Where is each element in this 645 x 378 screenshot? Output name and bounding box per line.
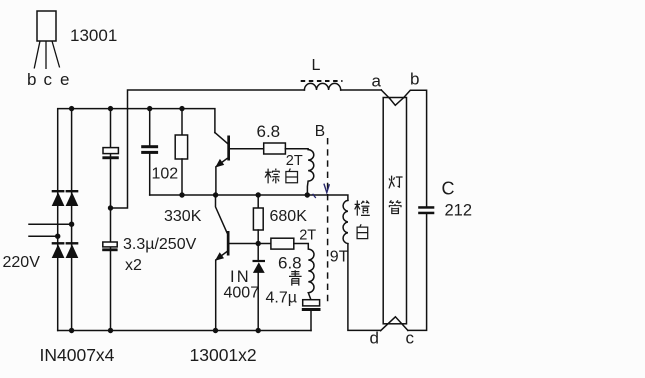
svg-text:3.3µ/250V: 3.3µ/250V [123,236,197,253]
svg-text:9T: 9T [330,248,349,265]
label guan (tube) [389,200,402,213]
lamp filament bottom [381,317,408,331]
transformer core (dashed) [327,138,329,305]
capacitor C4 212 [418,206,434,214]
resistor R1 330K [175,109,187,195]
node: AC lower [55,234,60,239]
wire: AC input line upper [29,223,72,225]
label cheng (orange) [355,200,370,215]
resistor R3 680K [253,195,263,244]
wire: half-bridge midpoint to resonant rail [111,90,305,208]
label bai (white) [286,169,298,183]
resistor R4 6.8 [271,238,294,249]
svg-text:102: 102 [152,166,179,183]
svg-text:6.8: 6.8 [257,122,281,141]
svg-text:4007: 4007 [224,285,260,302]
svg-text:13001: 13001 [70,26,117,45]
wire: right bridge leg [71,109,73,331]
wire: Q1 base lead [230,148,264,150]
svg-text:L: L [312,57,321,74]
node: 330K top [179,106,184,111]
lamp filament top [390,98,404,106]
node: cap string top [108,106,113,111]
svg-text:d: d [370,329,379,348]
capacitor C1 3.3u upper [102,148,118,160]
node: 2T winding bottom [305,192,310,197]
node: bridge bottom right [69,328,74,333]
node: Q1 emitter junction [213,192,218,197]
capacitor C3 4.7u [302,300,321,331]
svg-text:330K: 330K [164,208,202,225]
svg-text:680K: 680K [270,208,308,225]
winding T1 9T orange-white [343,200,348,243]
svg-text:13001x2: 13001x2 [190,345,257,365]
svg-text:2T: 2T [286,153,303,169]
wire: DC+ top rail [58,109,215,331]
capacitor C2 3.3u lower [102,242,117,251]
svg-text:IN4007x4: IN4007x4 [40,345,115,365]
svg-text:4.7µ: 4.7µ [266,290,297,307]
diode D1 (top-left of bridge) [52,191,65,206]
svg-text:c: c [406,329,415,348]
node: diode D5 bottom [256,328,261,333]
wire: L to lamp pin a [341,89,382,91]
svg-text:C: C [442,179,455,199]
transistor Q1 [215,133,230,195]
wire: 9T to lamp pin d [348,244,381,331]
resistor R2 6.8 [264,143,286,154]
svg-text:2T: 2T [299,228,316,244]
winding T1 2T cyan [294,244,314,300]
svg-text:212: 212 [445,202,473,220]
capacitor 102 [141,109,158,195]
wire: AC input line lower [29,235,58,237]
wire: emitter junction line [150,195,348,200]
diode D3 (bottom-left of bridge) [52,243,65,258]
diode D2 (top-right of bridge) [66,191,79,206]
polarity tick (navy) [313,194,316,198]
wire: pin c lead to cap C [408,214,427,330]
wire: pin b lead [404,90,427,206]
svg-text:c: c [44,70,53,89]
label zong (brown) [265,169,280,184]
svg-text:220V: 220V [3,254,41,271]
node: 680K top [256,192,261,197]
node: DC+ bridge tap [69,106,74,111]
label bai (white, 9T) [357,224,368,238]
diode D4 (bottom-right of bridge) [66,243,79,258]
svg-text:IN: IN [230,268,251,286]
node: cap midpoint [108,205,113,210]
label qing (cyan) [289,270,302,285]
diode D5 IN4007 [253,244,266,331]
svg-text:x2: x2 [125,257,142,274]
inductor L core (dashed) [301,80,343,82]
node: cap string bottom [108,328,113,333]
wire: Q2 base lead [230,243,271,245]
label deng (lamp) [389,176,403,189]
svg-text:b: b [410,70,419,89]
svg-text:a: a [372,72,382,91]
node: 102 top [147,106,152,111]
transistor Q2 [215,195,230,331]
svg-text:e: e [60,70,69,89]
svg-text:6.8: 6.8 [278,254,302,273]
node: 330K bottom [179,192,184,197]
inductor L [304,83,340,90]
lamp tube outline [383,98,406,324]
winding T1 2T brown-white [285,149,313,195]
wire: electrolytic cap string [110,109,112,331]
svg-text:B: B [315,123,325,140]
node: Q2 emitter bottom [213,328,218,333]
TO-92 package outline [34,11,59,69]
svg-text:b: b [27,70,36,89]
wire: pin a lead [381,90,389,99]
node: Q2 base [256,241,261,246]
polarity arrow (navy) [324,184,330,193]
wire: DC- bottom rail [58,330,311,332]
node: AC upper [69,222,74,227]
